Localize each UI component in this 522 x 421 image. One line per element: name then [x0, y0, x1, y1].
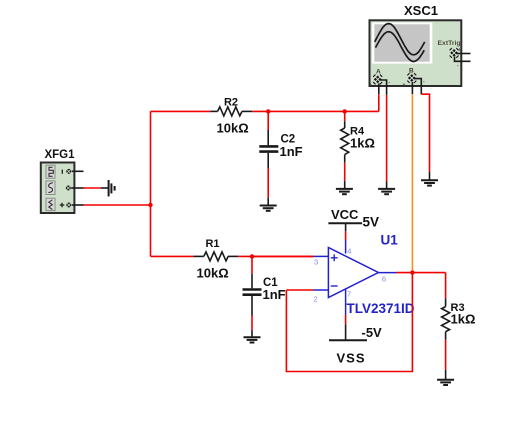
svg-text:2: 2	[314, 295, 318, 304]
wire bottom rail left	[151, 255, 194, 257]
op-amp U1	[314, 240, 397, 315]
wire R4 top	[344, 111, 346, 121]
wire top rail left	[151, 110, 211, 112]
wire stub ExtTrig plus	[457, 53, 471, 55]
junction output	[410, 270, 414, 274]
terminal ExtTrig	[450, 48, 459, 58]
svg-text:XSC1: XSC1	[404, 3, 438, 18]
svg-text:+: +	[458, 48, 461, 54]
svg-text:7: 7	[347, 290, 351, 299]
svg-text:4: 4	[347, 247, 351, 256]
svg-text:-5V: -5V	[362, 325, 383, 340]
oscilloscope XSC1	[370, 20, 462, 86]
svg-text:U1: U1	[381, 233, 399, 248]
wire R3 top	[445, 273, 447, 299]
ground A-	[378, 182, 395, 195]
wire pin3 red	[252, 255, 314, 257]
svg-text:10kΩ: 10kΩ	[217, 121, 249, 136]
wire stub A-	[381, 80, 387, 95]
svg-text:R2: R2	[224, 97, 238, 109]
svg-text:XFG1: XFG1	[44, 149, 75, 161]
function generator XFG1	[41, 163, 75, 214]
terminal XFG common	[66, 186, 71, 191]
ground R4	[336, 181, 353, 194]
ground (horizontal) at XFG	[101, 180, 115, 196]
terminal XFG minus	[62, 169, 71, 174]
junction R4	[343, 109, 347, 113]
svg-text:+: +	[369, 83, 372, 89]
wire scope A- to ground	[386, 95, 388, 182]
ground C2	[260, 198, 277, 211]
pin marks scope	[369, 48, 461, 89]
wire VCC red stub	[345, 231, 347, 240]
svg-text:1kΩ: 1kΩ	[451, 312, 476, 327]
wire C1 bottom	[251, 316, 253, 331]
terminal A	[373, 75, 382, 85]
wire C2 bottom	[267, 168, 269, 198]
svg-text:VCC: VCC	[331, 207, 359, 222]
wire R4 bottom	[344, 163, 346, 181]
svg-text:+: +	[403, 83, 406, 89]
resistor R1	[193, 252, 238, 261]
wire C2 top	[267, 111, 269, 130]
wire XFG plus to node	[84, 204, 151, 206]
capacitor C2	[259, 130, 278, 168]
resistor R3	[442, 298, 450, 340]
svg-text:10kΩ: 10kΩ	[197, 266, 229, 281]
wire C1 top	[251, 256, 253, 273]
ground C1	[244, 330, 261, 342]
wire stub ExtTrig minus	[455, 57, 471, 62]
wire pin7 red stub	[345, 315, 347, 324]
terminal B	[407, 73, 416, 83]
wire main vertical	[150, 111, 152, 256]
junction C2	[266, 109, 270, 113]
wire scope B+ orange	[411, 94, 413, 272]
capacitor C1	[243, 274, 262, 316]
wire output	[396, 272, 446, 274]
wire pin2 red	[286, 289, 313, 291]
svg-text:ExtTrig: ExtTrig	[438, 40, 461, 47]
wire stub B-	[415, 79, 422, 95]
wire feedback	[286, 273, 412, 372]
svg-text:6: 6	[382, 275, 386, 284]
wire stub B+	[411, 82, 413, 94]
wire XFG common to ground	[84, 187, 101, 189]
wire bottom rail right	[238, 255, 313, 257]
wire R3 bottom	[445, 340, 447, 370]
resistor R4	[341, 121, 349, 162]
wire top rail right	[252, 110, 379, 112]
svg-text:3: 3	[314, 258, 318, 267]
svg-text:1nF: 1nF	[263, 287, 286, 302]
junction C1	[250, 254, 254, 258]
svg-text:VSS: VSS	[337, 351, 366, 366]
VCC supply	[328, 223, 362, 231]
wire scope A+ drop	[378, 94, 380, 111]
ground B-	[421, 172, 438, 186]
VSS supply	[329, 324, 367, 340]
svg-text:TLV2371ID: TLV2371ID	[347, 301, 415, 316]
svg-text:1kΩ: 1kΩ	[350, 136, 375, 151]
wire stub XFG minus	[72, 170, 84, 172]
wire stub A+	[378, 84, 380, 95]
junction XFG node	[148, 203, 152, 207]
terminal XFG plus	[60, 203, 72, 208]
svg-text:1nF: 1nF	[280, 144, 303, 159]
wire stub XFG common	[71, 187, 83, 189]
svg-text:5V: 5V	[363, 215, 380, 230]
ground R3	[437, 370, 454, 385]
resistor R2	[210, 107, 252, 116]
svg-text:R1: R1	[205, 238, 219, 250]
wire scope B- jog to ground	[421, 94, 429, 172]
wire stub XFG plus	[72, 204, 84, 206]
